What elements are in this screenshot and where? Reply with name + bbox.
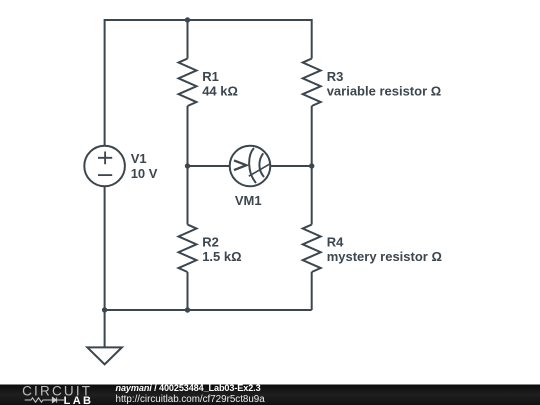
svg-text:naymani / 400253484_Lab03-Ex2.: naymani / 400253484_Lab03-Ex2.3 (116, 383, 261, 393)
wire R1 to node A (187, 106, 189, 166)
voltage source V1 (84, 146, 125, 187)
wire right rail upper lead (311, 19, 313, 59)
voltmeter VM1 (230, 146, 271, 187)
svg-text:R4: R4 (327, 234, 344, 249)
node junction bottom left (102, 307, 107, 312)
wire R2 to bottom rail (187, 272, 189, 310)
svg-text:VM1: VM1 (235, 193, 262, 208)
wire top rail (105, 19, 312, 21)
svg-text:44 kΩ: 44 kΩ (202, 84, 238, 99)
wire left rail lower (104, 186, 106, 310)
wire node B to R4 (311, 166, 313, 225)
svg-text:V1: V1 (131, 151, 147, 166)
resistor R3 (303, 59, 321, 106)
footer bar (0, 385, 540, 405)
resistor R1 (179, 59, 197, 106)
wire R4 to bottom rail (311, 272, 313, 310)
svg-text:1.5 kΩ: 1.5 kΩ (202, 249, 241, 264)
svg-text:R3: R3 (327, 69, 344, 84)
wire middle branch upper lead (187, 19, 189, 59)
node junction bottom mid (185, 307, 190, 312)
wire bottom rail (105, 309, 312, 311)
wire node A to voltmeter (188, 165, 230, 167)
svg-text:R1: R1 (202, 69, 219, 84)
svg-text:LAB: LAB (64, 395, 94, 405)
wire voltmeter to node B (270, 165, 311, 167)
node A junction (185, 163, 190, 168)
svg-text:variable resistor Ω: variable resistor Ω (327, 84, 441, 99)
wire left rail upper (104, 19, 106, 146)
ground (87, 310, 122, 364)
wire node A to R2 (187, 166, 189, 225)
CircuitLab logo waveform (25, 397, 64, 402)
svg-text:mystery resistor Ω: mystery resistor Ω (327, 249, 442, 264)
resistor R2 (179, 225, 197, 272)
svg-text:http://circuitlab.com/cf729r5c: http://circuitlab.com/cf729r5ct8u9a (116, 394, 266, 405)
node B junction (309, 163, 314, 168)
svg-text:R2: R2 (202, 234, 219, 249)
wire R3 to node B (311, 106, 313, 166)
node junction top (185, 17, 190, 22)
resistor R4 (303, 225, 321, 272)
svg-text:10 V: 10 V (131, 166, 158, 181)
